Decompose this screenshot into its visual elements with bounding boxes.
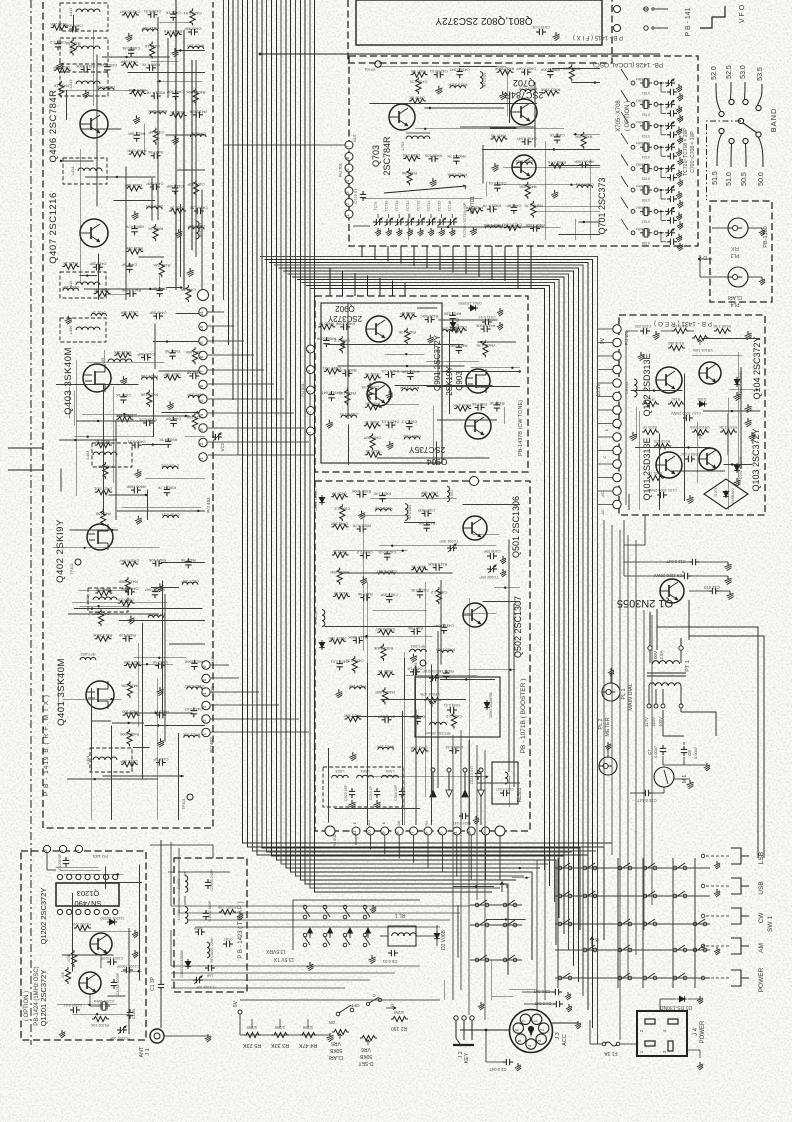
wire <box>537 210 601 212</box>
wire <box>598 328 613 330</box>
wire <box>598 450 613 452</box>
svg-text:J 4: J 4 <box>693 1027 699 1036</box>
ground <box>678 148 680 151</box>
svg-text:Q1203: Q1203 <box>77 889 100 898</box>
lamp PL1 MAIN DIAL <box>602 683 620 701</box>
svg-text:RL 1: RL 1 <box>395 912 406 918</box>
shield can (dashed) <box>88 588 128 612</box>
resistor <box>54 68 71 73</box>
transistor Q1201 <box>79 972 101 994</box>
pot VR101 <box>692 335 709 340</box>
wire <box>457 905 459 957</box>
wire <box>208 383 274 385</box>
capacitor <box>130 47 132 50</box>
pot VR6 D-SET <box>360 1035 377 1040</box>
capacitor <box>150 186 153 188</box>
resistor <box>103 462 108 479</box>
capacitor C7 <box>662 745 664 748</box>
wire bus <box>286 0 540 868</box>
switch contact <box>693 948 697 952</box>
wire <box>724 464 753 466</box>
ground <box>159 687 161 690</box>
trimmer TC1001 <box>193 979 196 981</box>
svg-text:R1001 1.5K: R1001 1.5K <box>217 905 237 909</box>
svg-text:VR501 47B: VR501 47B <box>420 692 440 696</box>
transistor Q501 <box>463 516 487 540</box>
svg-text:C443 30P: C443 30P <box>120 60 138 65</box>
capacitor C704 <box>667 155 670 157</box>
wire <box>426 246 428 268</box>
shield can (dashed) <box>92 443 132 467</box>
connector pin <box>470 477 479 486</box>
trimmer TC709 <box>373 221 376 223</box>
capacitor <box>151 155 154 157</box>
transformer PT1 primary winding <box>649 650 651 663</box>
wire <box>453 886 494 888</box>
wire <box>139 865 141 981</box>
ground <box>499 308 501 311</box>
svg-text:C443 30P: C443 30P <box>149 311 167 316</box>
resistor <box>159 260 164 277</box>
svg-text:C1201 1500P: C1201 1500P <box>116 964 139 968</box>
ground <box>388 228 390 231</box>
svg-text:D1001 1S1885M: D1001 1S1885M <box>180 951 184 978</box>
wire <box>544 855 546 1000</box>
svg-text:POWER: POWER <box>758 967 765 992</box>
wire <box>393 370 520 372</box>
svg-text:50KB: 50KB <box>359 1053 372 1059</box>
wire <box>145 477 205 479</box>
wire <box>96 882 142 884</box>
svg-text:R425 1K: R425 1K <box>318 321 334 326</box>
ground <box>438 86 440 89</box>
wire bus <box>257 0 588 855</box>
svg-text:R106 560: R106 560 <box>668 341 684 345</box>
switch ON/OFF <box>336 1012 340 1016</box>
svg-text:V F O: V F O <box>739 4 746 23</box>
wire <box>426 361 479 363</box>
ground <box>67 316 69 319</box>
capacitor <box>445 670 447 673</box>
svg-text:C459 0.51: C459 0.51 <box>139 418 157 423</box>
connector P/J1201 <box>43 845 50 852</box>
resistor <box>192 413 197 430</box>
wire <box>499 835 501 880</box>
svg-text:C423 0.01: C423 0.01 <box>430 69 448 74</box>
capacitor <box>166 486 168 489</box>
capacitor <box>153 315 156 317</box>
capacitor C524 <box>459 815 462 817</box>
svg-text:C1002 680P: C1002 680P <box>208 900 212 922</box>
inductor <box>187 687 203 690</box>
inductor L505 <box>382 775 399 778</box>
capacitor C705 <box>667 177 670 179</box>
socket J3 ACC <box>510 1010 553 1053</box>
capacitor <box>339 660 341 663</box>
wire <box>177 733 179 820</box>
resistor <box>436 587 441 604</box>
transformer PT1 primary taps <box>648 646 652 650</box>
wire bus <box>179 912 460 914</box>
resistor <box>114 353 131 358</box>
transistor Q103 <box>699 448 721 470</box>
capacitor <box>141 356 144 358</box>
wires switch matrix columns <box>557 858 559 988</box>
svg-text:C905 2.2: C905 2.2 <box>401 420 417 425</box>
resistor <box>170 113 187 118</box>
inductor <box>150 112 166 115</box>
wire <box>630 792 642 794</box>
wire bus <box>171 965 420 967</box>
wire <box>166 134 205 136</box>
resistor <box>345 388 350 405</box>
ground <box>137 516 139 519</box>
wire <box>413 835 415 863</box>
ground <box>362 576 364 579</box>
wire <box>334 550 408 552</box>
ground <box>699 1062 701 1065</box>
resistor <box>364 375 381 380</box>
resistor <box>194 180 199 197</box>
wires inside REG <box>626 330 638 332</box>
wire <box>334 808 420 810</box>
wire <box>509 989 537 991</box>
wire <box>680 708 682 712</box>
inductor <box>486 226 502 229</box>
wire <box>212 845 214 858</box>
switch contact <box>618 976 622 980</box>
wire <box>672 470 725 472</box>
connector P/J403 pin chain <box>198 290 209 301</box>
svg-text:00V: 00V <box>653 651 658 659</box>
svg-text:C443 30P: C443 30P <box>330 521 348 526</box>
wire <box>432 406 434 466</box>
capacitor C1209 <box>107 961 110 963</box>
ground <box>716 947 718 950</box>
capacitor C519 <box>376 788 378 791</box>
svg-text:C431 0.047: C431 0.047 <box>321 391 341 396</box>
resistor R106 <box>668 345 685 350</box>
wire <box>508 540 510 772</box>
wire <box>636 407 638 438</box>
svg-text:C459 0.51: C459 0.51 <box>403 434 421 439</box>
wire <box>598 490 613 492</box>
svg-text:C443 30P: C443 30P <box>124 183 142 188</box>
wire <box>164 594 166 741</box>
svg-text:D101: D101 <box>714 487 718 496</box>
wire <box>208 398 284 400</box>
wire <box>157 17 159 220</box>
svg-text:R105: R105 <box>645 397 654 401</box>
svg-text:TC716: TC716 <box>448 201 452 212</box>
resistor <box>403 156 420 161</box>
svg-text:C423 0.01: C423 0.01 <box>381 420 399 425</box>
capacitor <box>127 293 130 295</box>
ground <box>678 127 680 130</box>
svg-text:TC1001 50P: TC1001 50P <box>195 985 216 989</box>
wire <box>57 1004 117 1006</box>
svg-text:R413 390K: R413 390K <box>447 172 467 177</box>
wire <box>517 246 519 289</box>
svg-text:C443 30P: C443 30P <box>166 184 184 189</box>
svg-text:METER: METER <box>605 717 611 736</box>
svg-text:PB- 1428 (LOCAL OSC): PB- 1428 (LOCAL OSC) <box>593 61 663 68</box>
svg-text:KEY: KEY <box>464 1052 470 1063</box>
wire <box>624 515 645 545</box>
svg-text:Q407 2SC1216: Q407 2SC1216 <box>48 192 59 264</box>
ground <box>577 1021 579 1024</box>
wire <box>208 412 294 414</box>
inductor <box>142 377 158 380</box>
resistor <box>71 39 76 56</box>
svg-text:TC701~TC708 = 20P: TC701~TC708 = 20P <box>683 128 689 176</box>
wire <box>160 22 192 24</box>
ground <box>376 800 378 803</box>
svg-text:C459 0.51: C459 0.51 <box>340 412 358 417</box>
wire bus <box>296 0 525 876</box>
wire <box>177 169 205 171</box>
svg-text:R413 390K: R413 390K <box>75 64 95 69</box>
ground <box>398 228 400 231</box>
resistor R1204 <box>65 967 70 984</box>
svg-text:Q701 2SC373: Q701 2SC373 <box>597 177 607 234</box>
capacitor <box>122 393 124 396</box>
svg-text:L411: L411 <box>68 7 73 16</box>
svg-text:RFC1001 22uH: RFC1001 22uH <box>210 937 214 962</box>
svg-text:AC: AC <box>600 491 605 497</box>
svg-text:C1209 1S10P: C1209 1S10P <box>100 956 123 960</box>
svg-text:L703: L703 <box>400 141 405 151</box>
svg-text:C15 0.147: C15 0.147 <box>637 798 657 803</box>
svg-text:VR6: VR6 <box>361 1046 371 1052</box>
svg-text:0.0047: 0.0047 <box>693 746 698 759</box>
svg-text:117V: 117V <box>644 717 649 727</box>
transformer PT1 secondary winding <box>649 683 681 686</box>
capacitor C2 <box>503 1061 506 1063</box>
wire <box>170 842 172 906</box>
wire <box>683 742 685 745</box>
svg-text:C7: C7 <box>647 749 652 755</box>
svg-text:R421 10K: R421 10K <box>377 744 395 749</box>
svg-text:13.5V TX: 13.5V TX <box>273 956 294 962</box>
wire <box>492 995 513 997</box>
capacitor <box>481 328 484 330</box>
board PB-1428 (LOCAL OSC) outline <box>349 56 698 246</box>
svg-text:C524 0.047: C524 0.047 <box>453 821 472 825</box>
svg-text:R427 56: R427 56 <box>181 558 196 563</box>
ground <box>371 955 373 958</box>
svg-text:C452 1K: C452 1K <box>549 133 565 138</box>
inductor L405 <box>108 359 132 362</box>
svg-text:R413 390K: R413 390K <box>494 67 514 72</box>
svg-text:AM: AM <box>758 943 765 953</box>
svg-text:PL4: PL4 <box>730 301 739 307</box>
wire <box>598 396 613 398</box>
wire <box>662 756 664 765</box>
switch contact <box>558 922 562 926</box>
wire <box>415 128 564 130</box>
wire <box>443 371 521 373</box>
capacitor <box>193 660 195 663</box>
transistor Q1 2N3055 <box>660 579 684 603</box>
capacitor <box>360 555 363 557</box>
wire <box>477 782 520 784</box>
capacitor <box>156 762 159 764</box>
wire <box>307 1019 309 1028</box>
resistor <box>378 672 395 677</box>
IC pins bottom <box>57 909 62 914</box>
wire bus <box>237 0 239 455</box>
switch contact <box>643 894 647 898</box>
plug symbols to VFO <box>644 7 648 11</box>
diode D104 <box>736 377 738 387</box>
ground <box>451 228 453 231</box>
capacitor C815 <box>536 31 539 33</box>
wire <box>463 504 521 506</box>
capacitor C1212 <box>113 979 115 982</box>
wire <box>437 226 544 228</box>
svg-text:TC714: TC714 <box>427 201 431 212</box>
svg-text:TC503 6P: TC503 6P <box>422 669 440 673</box>
trimmer TC706 <box>665 189 668 191</box>
svg-text:11: 11 <box>352 830 357 835</box>
svg-text:R427 56: R427 56 <box>402 171 417 176</box>
capacitor C101 <box>657 494 660 496</box>
resistor R109 <box>672 328 689 333</box>
wire bus <box>305 0 508 975</box>
capacitor <box>93 266 96 268</box>
wire bus <box>274 265 583 996</box>
svg-text:X701: X701 <box>642 91 650 95</box>
svg-text:C459 0.51: C459 0.51 <box>409 80 427 85</box>
capacitor <box>579 164 582 166</box>
wire <box>469 598 471 825</box>
wire <box>740 367 742 469</box>
ground <box>761 277 763 280</box>
inductor RFC501 <box>405 504 408 521</box>
capacitor <box>194 210 197 212</box>
resistor R2 150 <box>391 1016 408 1021</box>
svg-text:R413 390K: R413 390K <box>92 633 112 638</box>
ground <box>678 234 680 237</box>
svg-text:C407 30P: C407 30P <box>146 182 164 187</box>
ground <box>517 1063 519 1066</box>
resistor <box>542 90 559 95</box>
wire <box>137 643 139 727</box>
resistor <box>364 423 381 428</box>
wire <box>437 419 497 421</box>
svg-text:L503: L503 <box>335 769 345 774</box>
resistor <box>421 493 438 498</box>
wire <box>367 581 369 686</box>
wire <box>598 369 613 371</box>
resistor <box>365 405 382 410</box>
resistor <box>147 390 152 407</box>
svg-text:2SC784R: 2SC784R <box>382 136 392 176</box>
wire <box>471 367 520 369</box>
svg-text:R406 100K: R406 100K <box>351 489 371 494</box>
switch contact <box>558 866 562 870</box>
switch contact <box>558 894 562 898</box>
wire <box>62 89 148 91</box>
capacitor <box>69 28 72 30</box>
wire <box>161 562 205 564</box>
svg-text:C5 0.047: C5 0.047 <box>533 989 551 994</box>
arrow A <box>500 882 504 892</box>
svg-text:R427 56: R427 56 <box>148 150 163 155</box>
resistor <box>340 504 345 521</box>
resistor R101 <box>647 475 664 480</box>
svg-text:Q406 2SC784R: Q406 2SC784R <box>48 89 59 162</box>
svg-text:50.5: 50.5 <box>741 172 748 186</box>
capacitor <box>422 512 425 514</box>
RF unit board PB-1419B (RF MIX) outline <box>43 2 213 828</box>
ground <box>689 780 691 783</box>
capacitor <box>172 350 174 353</box>
ground <box>309 962 311 965</box>
svg-text:C431 0.047: C431 0.047 <box>516 136 536 141</box>
inductor L401 <box>93 757 117 760</box>
inductor <box>442 330 458 333</box>
wire <box>407 213 409 240</box>
FET Q401 3SK40M <box>86 681 114 709</box>
switch C/D <box>366 1002 369 1005</box>
capacitor <box>159 287 161 290</box>
ground <box>502 91 504 94</box>
switch contact <box>583 894 587 898</box>
diode D502 <box>321 640 323 650</box>
svg-text:C431 0.047: C431 0.047 <box>120 10 140 15</box>
svg-text:TP701: TP701 <box>363 67 376 72</box>
wire <box>98 254 100 300</box>
capacitor C520 <box>351 788 353 791</box>
svg-text:50.0: 50.0 <box>758 172 765 186</box>
ground <box>377 228 379 231</box>
svg-text:C423 0.01: C423 0.01 <box>411 588 429 593</box>
wire bus <box>291 0 532 960</box>
inductor <box>449 175 465 178</box>
resistor <box>193 88 198 105</box>
svg-text:R421 10K: R421 10K <box>421 314 439 319</box>
wire <box>353 225 370 227</box>
svg-text:C431 0.047: C431 0.047 <box>376 569 396 574</box>
svg-text:C520 16P: C520 16P <box>344 784 348 801</box>
transistor Q703 <box>389 104 415 130</box>
svg-text:P/J 901: P/J 901 <box>300 382 305 396</box>
band switch upper contacts <box>719 111 724 116</box>
wire <box>105 867 107 890</box>
svg-text:C905 2.2: C905 2.2 <box>118 598 134 603</box>
wire <box>178 848 180 913</box>
wire bus <box>171 905 470 907</box>
svg-text:TC1201 35P: TC1201 35P <box>109 1036 130 1040</box>
svg-text:X703: X703 <box>642 134 650 138</box>
ground <box>640 352 642 355</box>
transistor Q901 <box>367 382 391 406</box>
trimmer TC714 <box>426 221 429 223</box>
wire <box>74 436 154 438</box>
wire <box>404 658 406 700</box>
wire <box>689 606 764 858</box>
diode D103 <box>697 403 707 405</box>
svg-text:22K: 22K <box>61 971 65 978</box>
resistor <box>340 336 345 353</box>
diode D902 <box>452 320 454 330</box>
wire <box>627 535 629 980</box>
transistor Q406 <box>80 110 108 138</box>
svg-text:Q702: Q702 <box>513 78 535 88</box>
svg-text:9V: 9V <box>600 337 606 344</box>
